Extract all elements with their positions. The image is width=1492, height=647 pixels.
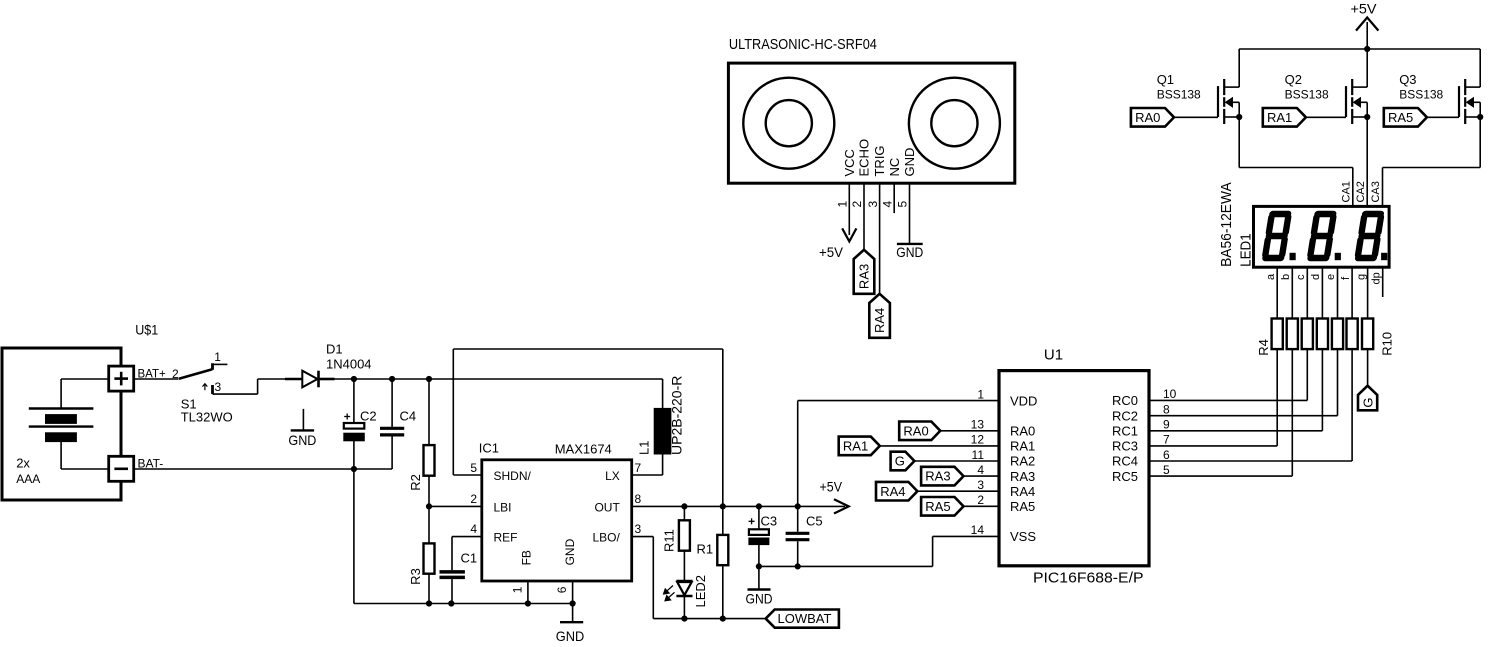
U1 left pin numbers [971,387,985,537]
net tag RA3 (echo) [854,250,875,294]
svg-text:R3: R3 [408,568,423,585]
junction at C4 [390,376,395,381]
svg-text:Q1: Q1 [1157,72,1174,87]
svg-text:dp: dp [1370,272,1382,284]
junction C5 bottom [795,564,800,569]
svg-text:2: 2 [977,493,984,507]
svg-text:VSS: VSS [1010,529,1036,544]
svg-text:LED1: LED1 [1237,233,1254,267]
junction rail C1 [449,601,454,606]
net tag RA0 (Q1 gate) [1131,108,1174,127]
svg-text:VCC: VCC [842,149,857,176]
wire RA1 tag to U1 pin 12 [880,445,999,447]
wire NC pin 4 stub [893,183,895,213]
battery U$1 body [2,348,121,500]
transistor Q1 BSS138 [1218,49,1242,124]
svg-text:G: G [1361,397,1376,407]
svg-text:PIC16F688-E/P: PIC16F688-E/P [1033,570,1144,587]
svg-text:RA5: RA5 [1010,499,1035,514]
battery label U$1 [135,322,158,338]
svg-text:G: G [895,454,905,469]
ground symbol at ultrasonic [896,244,923,260]
capacitor C2 (polarized) [344,379,377,469]
junction OUT at C5 [795,504,800,509]
svg-text:8: 8 [1163,403,1170,417]
svg-text:5: 5 [470,461,477,475]
svg-text:10: 10 [1163,387,1177,401]
wire OUT to U1 VDD riser [797,401,799,507]
IC U1 body [999,371,1149,566]
ground symbol below C3 [746,566,773,606]
transistor Q3 BSS138 [1459,49,1483,124]
svg-text:13: 13 [971,418,985,432]
display digit 3 (8.) [1358,214,1387,260]
resistor R5 [1287,319,1298,350]
svg-text:CA1: CA1 [1341,181,1353,202]
svg-text:a: a [1265,273,1277,280]
resistor network label R10 [1380,332,1395,356]
svg-text:9: 9 [1163,418,1170,432]
svg-text:LBO/: LBO/ [592,531,620,545]
svg-text:1: 1 [214,350,221,364]
ultrasonic module U2 body [728,63,1014,183]
label BAT+ [138,369,167,381]
svg-text:3: 3 [215,380,222,394]
svg-text:RA4: RA4 [880,484,905,499]
wire L1 to LX [632,454,663,475]
U1 right pin numbers [1163,387,1177,477]
net tag G (display g segment) [1358,386,1377,411]
svg-text:RA0: RA0 [903,423,928,438]
+5V supply arrow (down) at VCC [819,228,856,260]
wire display segment to resistor R9 [1351,267,1353,318]
svg-text:4: 4 [977,463,984,477]
switch actuator arrow [203,384,208,391]
capacitor C5 [786,506,810,566]
wire dp pin stub [1382,267,1384,297]
capacitor C4 [380,379,404,469]
svg-text:Q2: Q2 [1285,72,1302,87]
wire resistor R10 to G tag [1367,349,1369,386]
svg-text:SHDN/: SHDN/ [494,469,532,483]
wire display segment to resistor R4 [1276,267,1278,318]
wire RA5 to Q3 gate [1427,116,1459,118]
IC1 labels [479,441,612,457]
svg-text:12: 12 [971,433,985,447]
junction rail R3 [426,601,431,606]
svg-text:D1: D1 [326,342,343,357]
svg-text:LBI: LBI [494,500,512,514]
svg-text:BSS138: BSS138 [1399,88,1443,102]
wire U1 VSS pin 14 [759,536,999,566]
wire Q2 source to CA2 [1366,117,1368,206]
junction rail GND pin [570,601,575,606]
wire RA5 tag to U1 pin 2 [964,505,1000,507]
svg-text:1: 1 [511,586,525,593]
diode D1 [285,371,335,388]
wire display segment to resistor R7 [1321,267,1323,318]
switch pin number 3 [215,380,222,394]
net tag RA5 (Q3 gate) [1384,108,1427,127]
display part labels BA56-12EWA LED1 [1218,182,1254,267]
left transducer [743,78,834,169]
resistor R10 [1362,319,1373,350]
svg-text:7: 7 [635,461,642,475]
svg-text:RA1: RA1 [1267,110,1292,125]
wire display segment to resistor R10 [1367,267,1369,318]
svg-text:RA0: RA0 [1010,424,1035,439]
svg-text:IC1: IC1 [479,441,499,456]
resistor R7 [1317,319,1328,350]
label BAT- [138,457,164,471]
svg-text:RA4: RA4 [1010,484,1035,499]
wire U1 RC4 pin 6 to resistor [1149,349,1352,461]
inductor L1 labels [637,376,685,455]
wire Q1 source to CA1 [1239,117,1353,206]
ground symbol below IC1 [556,622,585,644]
net tag RA1 at U1 [839,437,880,456]
svg-text:C4: C4 [400,409,417,424]
wire GND pin 5 [909,183,911,244]
transistor Q2 BSS138 [1346,49,1370,124]
+5V supply arrow (right) at OUT [820,479,849,514]
switch S1 lever [179,369,212,379]
svg-text:4: 4 [880,201,894,208]
svg-text:R10: R10 [1380,332,1395,356]
wire battery internal negative [61,442,109,469]
wire ECHO pin 2 [863,183,865,250]
right transducer [909,78,1000,169]
wire IC1 GND pin 6 [572,581,574,622]
svg-text:g: g [1355,274,1367,280]
svg-text:BA56-12EWA: BA56-12EWA [1218,182,1235,267]
junction +5V rail [1365,46,1370,51]
resistor R2 [408,379,434,506]
wire RA0 tag to U1 pin 13 [940,430,999,432]
svg-text:RA0: RA0 [1135,110,1160,125]
net tag RA4 at U1 [876,482,917,501]
svg-text:+5V: +5V [819,244,844,260]
svg-text:RA2: RA2 [1010,454,1035,469]
svg-text:2x: 2x [16,456,30,471]
resistor R6 [1302,319,1313,350]
svg-text:GND: GND [288,432,316,448]
svg-text:4: 4 [470,522,477,536]
svg-text:RA1: RA1 [1010,439,1035,454]
svg-text:R4: R4 [1256,339,1271,356]
resistor R9 [1347,319,1358,350]
svg-text:ULTRASONIC-HC-SRF04: ULTRASONIC-HC-SRF04 [729,37,877,53]
junction at C2 [351,376,356,381]
switch S1 contact 3 [211,385,214,394]
svg-text:1: 1 [836,201,850,208]
svg-text:b: b [1280,274,1292,280]
svg-text:2: 2 [172,367,179,381]
terminal BAT- [109,456,134,481]
net tag RA0 at U1 [899,422,940,441]
svg-text:+5V: +5V [1351,1,1378,17]
LED2 label [693,575,708,608]
svg-text:1: 1 [977,387,984,401]
wire LBO to LOWBAT [632,537,766,619]
junction R1 LOWBAT [720,616,725,621]
svg-text:7: 7 [1163,433,1170,447]
wire LBI to divider [429,505,482,507]
wire U1 RC1 pin 9 to resistor [1149,349,1322,431]
wire RA3 tag to U1 pin 4 [964,475,1000,477]
net tag RA1 (Q2 gate) [1263,108,1306,127]
svg-text:LOWBAT: LOWBAT [778,611,832,626]
wire boost input down to L1 [662,379,664,408]
svg-text:Q3: Q3 [1399,72,1416,87]
svg-text:RA5: RA5 [1388,110,1413,125]
svg-text:3: 3 [635,522,642,536]
capacitor C1 [440,572,465,604]
display digit 2 (8.) [1310,214,1340,260]
svg-text:TRIG: TRIG [872,145,887,176]
svg-text:GND: GND [902,148,917,177]
wire RA0 to Q1 gate [1174,116,1218,118]
svg-text:C3: C3 [761,514,778,529]
svg-text:R1: R1 [697,541,714,556]
wire OUT net [632,505,845,507]
wire REF to C1 [452,537,482,571]
svg-text:RC2: RC2 [1112,408,1138,423]
svg-text:LX: LX [605,469,620,483]
junction OUT at R11 [682,504,687,509]
wire ground rail [354,603,573,605]
wire TRIG pin 3 [879,183,881,294]
junction OUT at C3 [756,504,761,509]
svg-text:LED2: LED2 [693,575,708,608]
svg-text:R11: R11 [662,529,677,552]
svg-text:14: 14 [971,523,985,537]
battery cell plates [29,409,94,442]
junction LED2 LOWBAT [682,616,687,621]
battery value 2x AAA [16,456,40,486]
svg-text:5: 5 [1163,463,1170,477]
U1 right pin names [1112,393,1138,484]
svg-text:R2: R2 [408,474,423,491]
wire FB pin 1 [527,581,529,604]
net tag LOWBAT [766,610,839,628]
svg-text:5: 5 [896,201,910,208]
svg-text:2: 2 [470,492,477,506]
display LED1 body [1254,206,1390,267]
svg-text:RA3: RA3 [1010,469,1035,484]
wire VCC pin 1 [848,183,850,235]
svg-text:U$1: U$1 [135,322,158,338]
svg-text:RA5: RA5 [925,499,950,514]
junction at R2 [426,376,431,381]
svg-text:RC3: RC3 [1112,439,1138,454]
U1 value PIC16F688-E/P [1033,570,1144,587]
wire BAT+ to switch [134,378,179,380]
svg-text:GND: GND [556,628,585,644]
IC1 pin numbers [470,461,641,594]
net tag RA4 (trig) [869,294,890,338]
svg-text:GND: GND [563,538,577,565]
display segment pin labels a-g dp [1265,272,1383,284]
net tag G at U1 [891,452,915,471]
wire C2 to ground rail [353,469,355,604]
svg-text:C5: C5 [806,514,823,529]
junction rail FB [525,601,530,606]
svg-text:3: 3 [866,201,880,208]
wire switch to diode [213,379,286,394]
LED2 emission arrows [663,586,674,601]
svg-text:1N4004: 1N4004 [326,357,372,372]
svg-text:c: c [1295,274,1307,280]
resistor R3 [408,506,434,603]
LED LED2 [676,581,692,596]
svg-text:MAX1674: MAX1674 [555,441,612,456]
junction C3 bottom [756,564,761,569]
svg-text:UP2B-220-R: UP2B-220-R [669,376,685,455]
wire display segment to resistor R8 [1337,267,1339,318]
wire diode to boost input [335,378,663,380]
svg-text:RA3: RA3 [857,264,872,289]
net tag RA5 at U1 [921,497,963,516]
svg-text:AAA: AAA [16,472,40,486]
svg-text:FB: FB [519,550,533,565]
resistor network label R4 [1256,339,1271,356]
svg-text:GND: GND [896,244,923,260]
wire battery internal positive [61,379,109,409]
svg-text:RA1: RA1 [843,439,868,454]
junction OUT at R1 [720,504,725,509]
CA1 CA2 CA3 pin labels [1341,181,1383,202]
wire U1 RC0 pin 10 to resistor [1149,349,1307,400]
ground symbol near D1 [288,409,316,448]
junction C2 bottom [351,466,356,471]
wire LED2 to LOWBAT net [683,596,685,619]
U1 label [1044,347,1063,364]
svg-text:6: 6 [555,586,569,593]
svg-text:NC: NC [887,158,902,177]
IC1 pin names [494,469,621,566]
junction LBI divider [426,504,431,509]
resistor R8 [1332,319,1343,350]
IC IC1 body [482,460,632,581]
svg-text:RC0: RC0 [1112,393,1138,408]
diode D1 labels [326,342,372,372]
switch pin number 1 [214,350,221,364]
display digit 1 (8.) [1265,214,1295,260]
wire BAT- net [134,468,392,470]
wire U1 RC5 pin 5 to resistor [1149,349,1292,476]
svg-text:OUT: OUT [594,500,620,514]
svg-text:RC4: RC4 [1112,454,1138,469]
wire U1 VDD pin 1 [798,400,999,402]
label C4 [400,409,417,424]
wire Q3 source to CA3 [1383,117,1481,206]
ultrasonic module title [729,37,877,53]
transistor Q3 label [1399,72,1443,102]
svg-text:CA2: CA2 [1355,181,1367,202]
svg-text:RA3: RA3 [925,469,950,484]
wire G tag to U1 pin 11 [914,460,999,462]
wire R11 to LED2 [683,551,685,581]
label C1 [461,551,478,566]
wire RA1 to Q2 gate [1306,116,1346,118]
wire SHDN to OUT loop [453,349,723,506]
inductor L1 [654,408,671,454]
svg-text:ECHO: ECHO [857,139,872,177]
svg-text:L1: L1 [637,441,652,455]
wire +5V rail to transistor drains [1239,48,1480,50]
svg-text:CA3: CA3 [1370,181,1382,202]
U1 left pin names [1010,393,1037,544]
switch S1 labels [181,397,233,425]
terminal BAT+ [109,366,134,391]
svg-text:RC5: RC5 [1112,469,1138,484]
ultrasonic pin name labels VCC ECHO TRIG NC GND [842,139,917,177]
svg-text:C1: C1 [461,551,478,566]
label C5 [806,514,823,529]
+5V supply symbol (up) top right [1351,1,1379,50]
svg-text:11: 11 [972,448,985,462]
switch S1 contact 1 [213,363,228,370]
wire display segment to resistor R6 [1306,267,1308,318]
svg-text:C2: C2 [360,409,377,424]
svg-text:BSS138: BSS138 [1285,88,1329,102]
svg-text:BSS138: BSS138 [1157,88,1201,102]
wire U1 RC2 pin 8 to resistor [1149,349,1338,416]
ultrasonic pin numbers 1-5 [836,201,910,208]
resistor R4 [1272,319,1283,350]
svg-text:RA4: RA4 [872,308,887,333]
svg-text:TL32WO: TL32WO [181,410,233,425]
transistor Q1 label [1157,72,1201,102]
resistor R11 [662,506,690,552]
net tag RA3 at U1 [921,467,963,486]
wire U1 RC3 pin 7 to resistor [1149,349,1277,446]
svg-text:d: d [1310,274,1322,280]
svg-text:REF: REF [494,531,518,545]
capacitor C3 (polarized) [749,506,778,566]
svg-text:2: 2 [850,201,864,208]
svg-text:U1: U1 [1044,347,1063,364]
wire RA4 tag to U1 pin 3 [917,490,999,492]
svg-text:RC1: RC1 [1112,424,1138,439]
svg-text:+5V: +5V [820,479,843,495]
svg-text:8: 8 [635,492,642,506]
resistor R1 [697,506,729,618]
svg-text:e: e [1325,274,1337,280]
svg-text:3: 3 [977,478,984,492]
svg-text:GND: GND [746,591,773,607]
svg-text:6: 6 [1163,448,1170,462]
transistor Q2 label [1285,72,1329,102]
switch pin number 2 [172,367,179,381]
svg-text:VDD: VDD [1010,393,1037,408]
wire display segment to resistor R5 [1291,267,1293,318]
